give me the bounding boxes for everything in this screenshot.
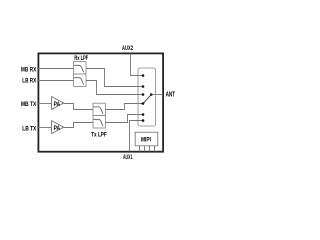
wire Rx LPF1 output to switch node 2 (86, 69, 143, 87)
switch node 4 (142, 102, 145, 105)
wire AUX2 to switch node 1 (131, 54, 144, 76)
switch arm (144, 95, 151, 103)
switch node 6 (142, 119, 145, 122)
wire PA1 to Tx LPF1 (64, 104, 93, 110)
MIPI pin 3 (149, 146, 151, 152)
wire LB RX input (37, 80, 74, 82)
wire ANT output (151, 94, 163, 96)
svg-text:Tx LPF: Tx LPF (91, 131, 107, 138)
MIPI block (135, 132, 158, 146)
antenna switch box (138, 68, 156, 126)
wire MB TX input (37, 103, 52, 105)
wire PA2 to Tx LPF2 (64, 123, 93, 128)
PA amplifier 2 (52, 121, 64, 134)
outer module box (38, 53, 163, 151)
svg-text:ANT: ANT (166, 92, 176, 99)
Rx LPF filter 2 (74, 74, 86, 86)
svg-text:LB TX: LB TX (22, 126, 36, 133)
wire LB TX input (37, 127, 52, 129)
Tx LPF filter 1 (93, 103, 105, 115)
switch pivot node (150, 93, 153, 96)
wire Tx LPF2 output to switch node 5 (105, 115, 143, 123)
MIPI pin 4 (154, 146, 156, 152)
wire Tx LPF1 output to switch node 4 (105, 104, 143, 110)
svg-text:Rx LPF: Rx LPF (74, 55, 88, 62)
svg-text:MIPI: MIPI (141, 136, 151, 143)
switch node 1 (142, 74, 145, 77)
svg-text:LB RX: LB RX (22, 78, 36, 85)
wire AUX1 to switch node 6 (130, 121, 144, 152)
Rx LPF filter 1 (74, 62, 86, 74)
MIPI pin 2 (144, 146, 146, 152)
svg-text:MB RX: MB RX (21, 67, 37, 74)
Tx LPF filter 2 (93, 116, 105, 128)
MIPI pin 1 (139, 146, 141, 152)
svg-text:MB TX: MB TX (21, 101, 37, 108)
svg-text:PA: PA (54, 125, 61, 132)
PA amplifier 1 (52, 97, 64, 110)
wire MB RX input (37, 68, 74, 70)
switch node 2 (142, 85, 145, 88)
svg-text:AUX1: AUX1 (123, 154, 133, 161)
svg-text:AUX2: AUX2 (122, 45, 133, 52)
switch node 5 (142, 113, 145, 116)
switch node 3 (142, 93, 145, 96)
wire Rx LPF2 output to switch node 3 (86, 81, 143, 95)
svg-text:PA: PA (54, 101, 61, 108)
